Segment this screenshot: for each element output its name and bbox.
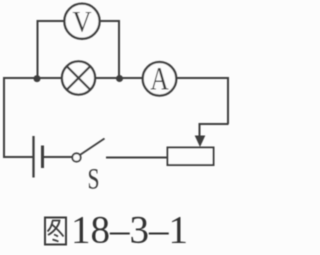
svg-text:S: S — [88, 163, 100, 196]
svg-text:A: A — [150, 62, 169, 98]
svg-text:18–3–1: 18–3–1 — [71, 209, 188, 251]
svg-text:V: V — [72, 5, 91, 38]
